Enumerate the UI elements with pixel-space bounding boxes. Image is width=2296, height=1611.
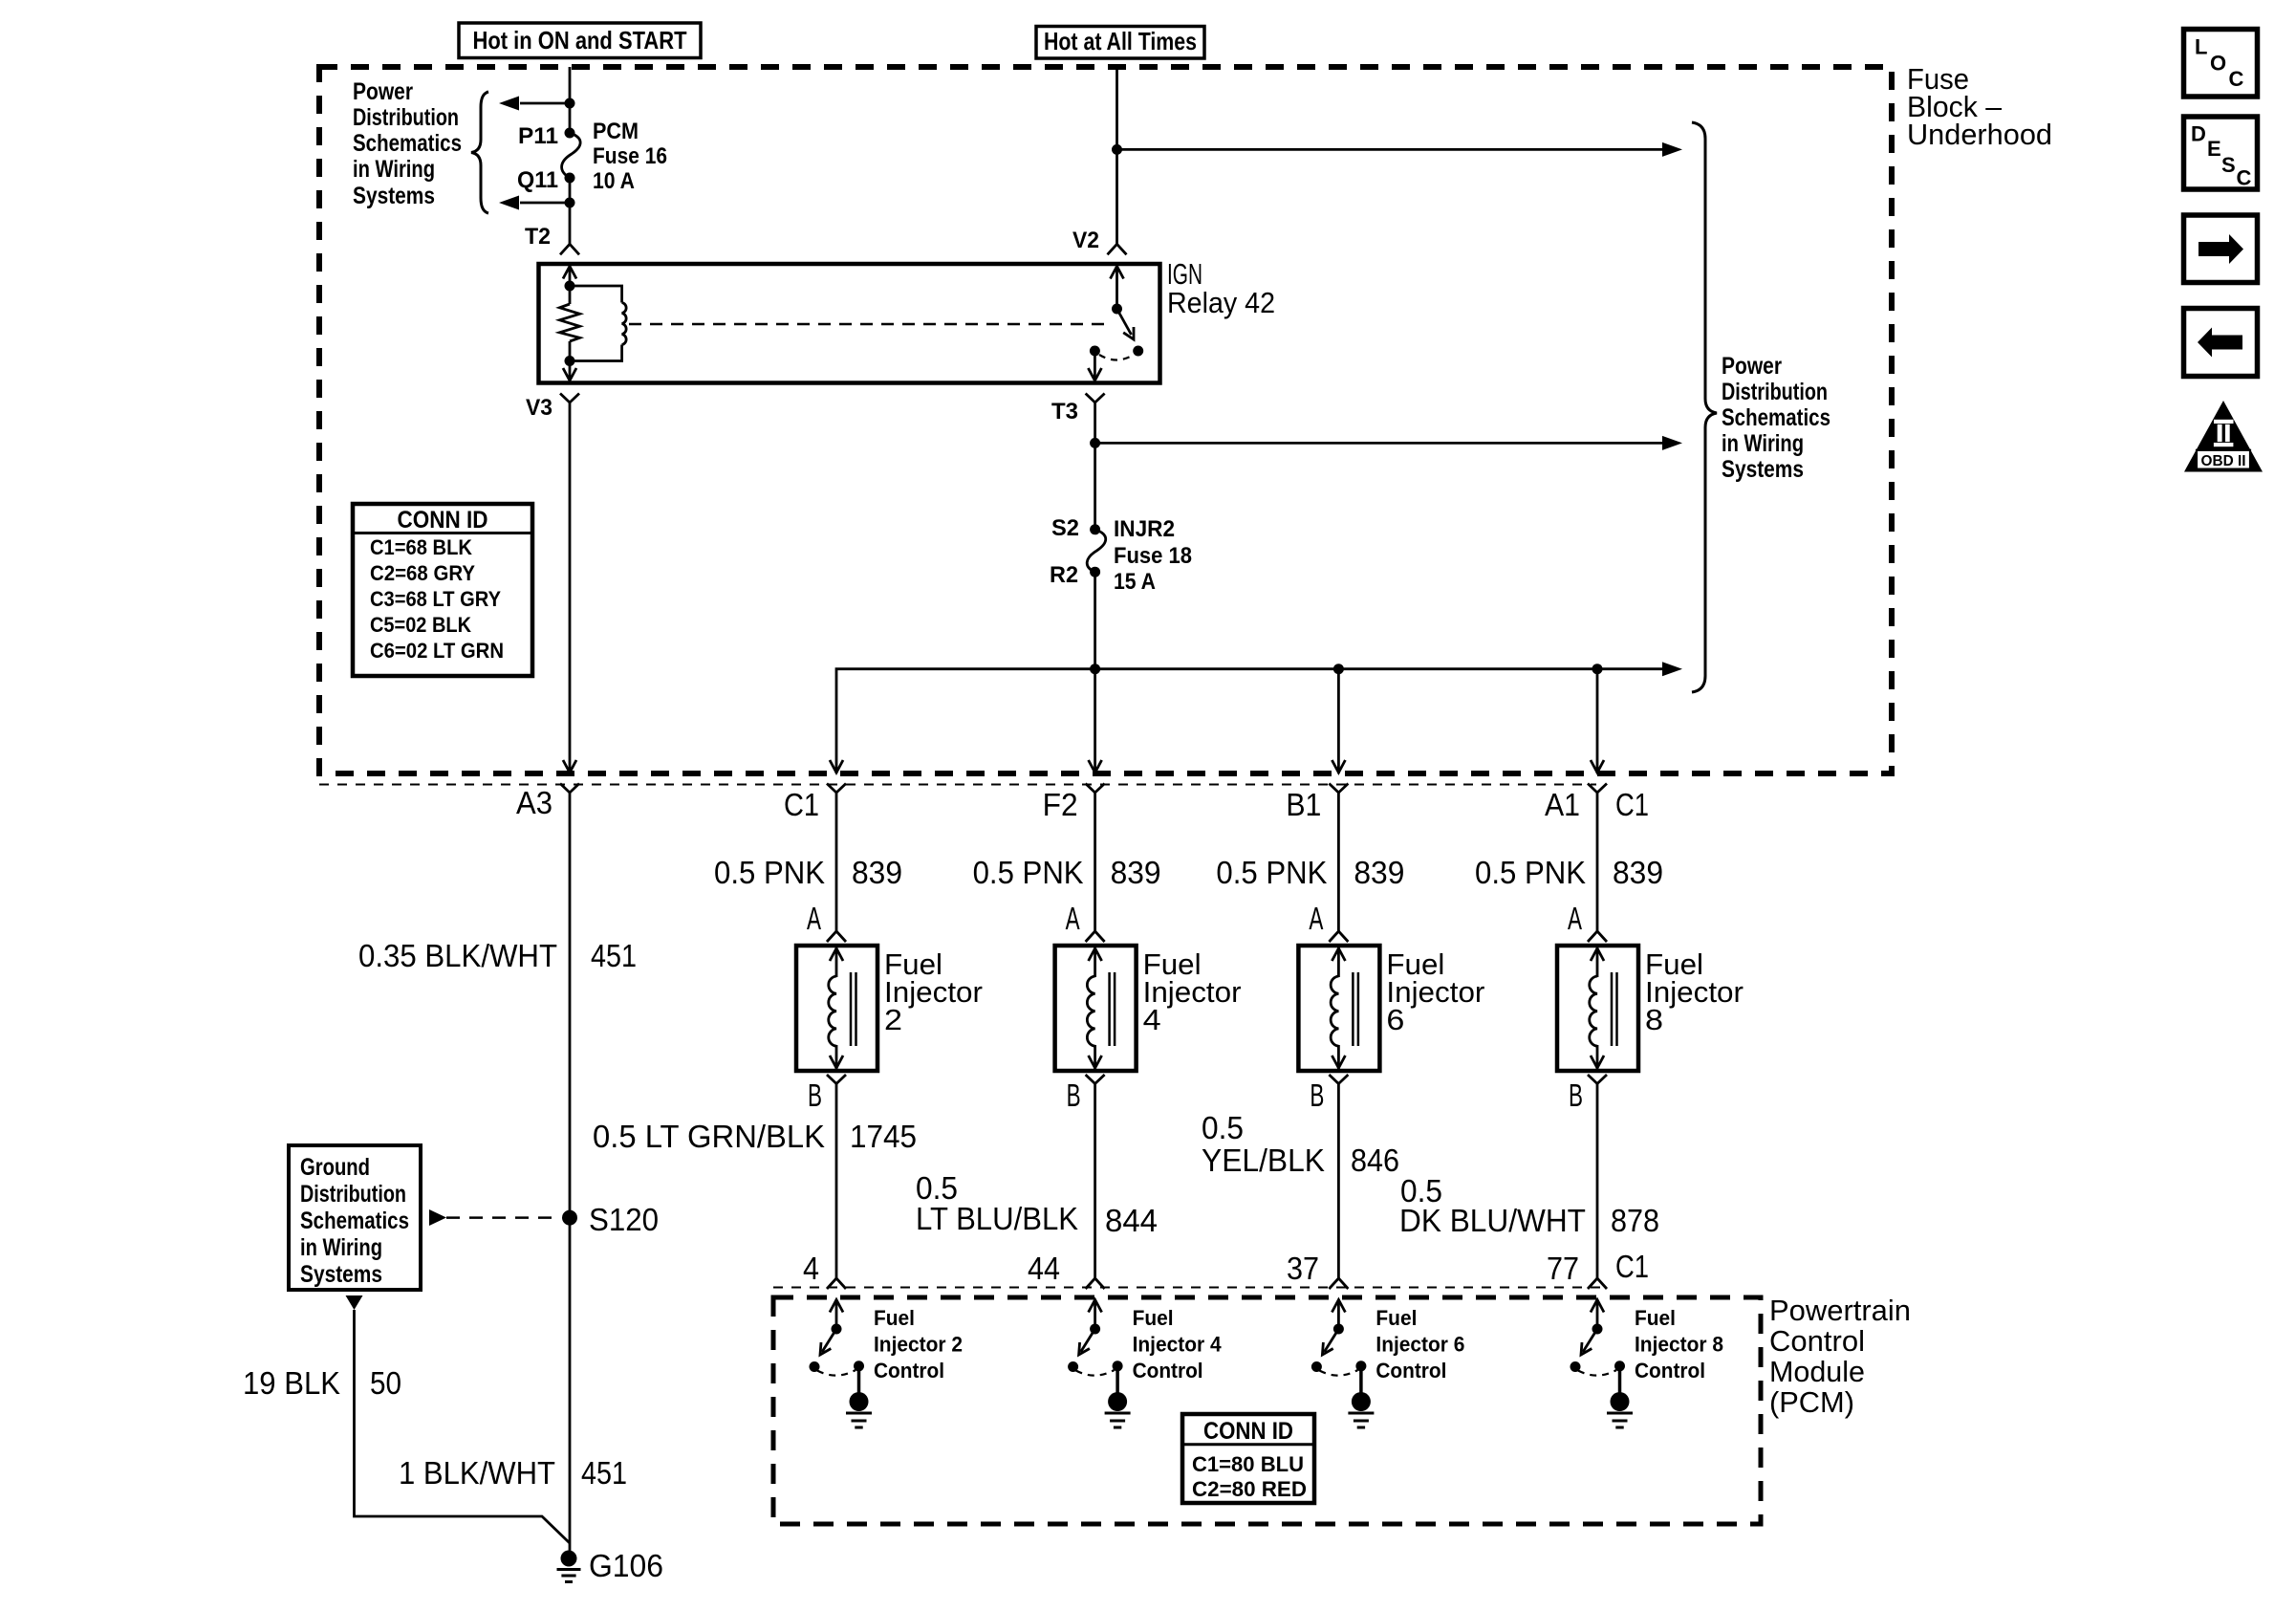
svg-text:Schematics: Schematics — [353, 130, 462, 157]
svg-text:4: 4 — [1143, 1003, 1161, 1036]
svg-text:0.5 PNK: 0.5 PNK — [973, 855, 1084, 890]
PCM switch dashed travel arc injector 2 — [817, 1370, 856, 1376]
svg-text:Module: Module — [1769, 1355, 1865, 1388]
fuel injector 4 box — [1055, 946, 1137, 1071]
wire from Hot in ON and START to fuse 16 — [569, 67, 572, 133]
svg-text:T2: T2 — [525, 224, 551, 250]
svg-text:0.5: 0.5 — [1202, 1110, 1244, 1145]
PCM internal ground lead injector 8 — [1618, 1366, 1622, 1396]
svg-text:DK BLU/WHT: DK BLU/WHT — [1399, 1203, 1586, 1238]
relay coil top junction — [565, 281, 575, 292]
svg-text:F2: F2 — [1043, 787, 1078, 822]
icon OBD II triangle — [2184, 401, 2263, 472]
PCM switch right contact node injector 8 — [1614, 1361, 1625, 1371]
connector V3 below relay — [560, 394, 579, 403]
PCM switch right contact node injector 6 — [1355, 1361, 1366, 1371]
dashed link to S120 — [446, 1216, 558, 1219]
svg-text:878: 878 — [1611, 1203, 1659, 1238]
svg-text:Underhood: Underhood — [1907, 118, 2052, 151]
svg-text:6: 6 — [1386, 1003, 1404, 1036]
PCM driver arrow for injector 2 — [835, 1299, 838, 1329]
wire 0.5 PNK 839 to fuel injector 6 — [1337, 793, 1340, 931]
PCM internal ground lead injector 4 — [1116, 1366, 1119, 1396]
svg-text:C1: C1 — [1615, 1249, 1649, 1284]
svg-text:B: B — [1067, 1078, 1081, 1113]
fuel injector 6 internal arrows — [1337, 947, 1340, 977]
relay internal dashed actuation line — [629, 323, 1105, 326]
svg-text:YEL/BLK: YEL/BLK — [1202, 1143, 1325, 1178]
tag box Hot in ON and START — [459, 23, 701, 58]
arrow from ground distribution box — [429, 1209, 446, 1226]
svg-text:2: 2 — [884, 1003, 902, 1036]
svg-text:in Wiring: in Wiring — [300, 1234, 382, 1261]
fuel injector 2 internal arrows — [835, 947, 838, 977]
PCM switch blade arrow injector 4 — [1081, 1329, 1095, 1352]
PCM switch blade arrow injector 2 — [822, 1329, 836, 1352]
svg-text:T3: T3 — [1051, 399, 1078, 425]
PCM switch right contact node injector 2 — [854, 1361, 864, 1371]
wire from fuel injector 8 pin B to PCM — [1596, 1084, 1599, 1279]
fuse F16 PCM Fuse 16 10 A — [565, 128, 575, 139]
fuel injector 8 core bars — [1611, 972, 1614, 1046]
svg-text:S: S — [2221, 153, 2236, 177]
wire fuse 16 to T2 — [565, 198, 575, 208]
PCM internal ground lead injector 6 — [1359, 1366, 1363, 1396]
connector pin A1 at fuse block output (injector 8 circuit) — [1588, 784, 1607, 794]
fuel injector 6 box — [1298, 946, 1379, 1071]
svg-text:1745: 1745 — [850, 1119, 917, 1154]
PCM switch left contact node injector 2 — [810, 1361, 820, 1372]
svg-text:A: A — [1066, 901, 1080, 936]
svg-text:C1=68 BLK: C1=68 BLK — [370, 535, 472, 559]
svg-text:B: B — [808, 1078, 822, 1113]
svg-text:C2=80 RED: C2=80 RED — [1192, 1477, 1307, 1501]
fuel injector 4 core bars — [1108, 972, 1111, 1046]
branch arrow to power distribution (upper) — [520, 102, 570, 105]
svg-text:Q11: Q11 — [517, 167, 558, 193]
svg-text:R2: R2 — [1050, 562, 1078, 588]
PCM switch left contact node injector 4 — [1068, 1361, 1078, 1372]
svg-text:B: B — [1569, 1078, 1583, 1113]
PCM switch pivot node injector 4 — [1090, 1324, 1100, 1335]
svg-text:C3=68 LT GRY: C3=68 LT GRY — [370, 587, 501, 611]
fuel injector 8 internal arrows — [1596, 947, 1599, 977]
svg-text:0.35 BLK/WHT: 0.35 BLK/WHT — [358, 938, 557, 973]
wire from fuel injector 6 pin B to PCM — [1337, 1084, 1340, 1279]
svg-text:Ground: Ground — [300, 1154, 370, 1181]
bus junction at B1 column — [1333, 664, 1344, 674]
svg-text:A3: A3 — [516, 785, 552, 820]
svg-text:15 A: 15 A — [1114, 569, 1156, 595]
fuel injector 4 internal arrows — [1094, 947, 1096, 977]
relay switch output node (T3 side) — [1090, 346, 1100, 357]
svg-text:V2: V2 — [1072, 228, 1099, 253]
svg-text:844: 844 — [1105, 1203, 1158, 1238]
svg-text:Control: Control — [1769, 1324, 1865, 1358]
PCM switch dashed travel arc injector 8 — [1578, 1370, 1616, 1376]
PCM switch left contact node injector 8 — [1570, 1361, 1581, 1372]
wire fuse 18 down to injector bus — [1094, 572, 1096, 773]
svg-text:Fuel: Fuel — [1375, 1306, 1417, 1330]
relay switch contact node (NO) — [1133, 346, 1143, 357]
PCM driver arrow for injector 4 — [1094, 1299, 1096, 1329]
PCM switch dashed travel arc injector 6 — [1319, 1370, 1357, 1376]
bus junction at F2 column — [1090, 664, 1100, 674]
fuel injector 8 solenoid coil — [1590, 976, 1597, 1046]
svg-text:Systems: Systems — [353, 183, 435, 209]
svg-text:(PCM): (PCM) — [1769, 1385, 1854, 1419]
fuel injector 6 solenoid coil — [1331, 976, 1338, 1046]
svg-text:C1: C1 — [1615, 787, 1649, 822]
svg-text:Systems: Systems — [1722, 456, 1804, 483]
relay coil pin arrow up (T2 side) — [569, 267, 572, 287]
svg-text:Schematics: Schematics — [1722, 404, 1830, 431]
arrow into 19 BLK 50 wire — [346, 1295, 363, 1310]
svg-text:in Wiring: in Wiring — [353, 156, 435, 183]
svg-text:A1: A1 — [1545, 787, 1580, 822]
connector line below fuse block — [319, 784, 1596, 786]
wire 0.5 PNK 839 to fuel injector 8 — [1596, 793, 1599, 931]
svg-text:E: E — [2207, 137, 2221, 161]
bus drop wire to A1 — [1596, 669, 1599, 773]
connector T2 wire end — [560, 244, 579, 254]
junction node on P11 branch — [565, 98, 575, 109]
svg-text:50: 50 — [370, 1365, 401, 1401]
svg-text:in Wiring: in Wiring — [1722, 430, 1804, 457]
svg-text:Fuel: Fuel — [1133, 1306, 1174, 1330]
wire 19 BLK 50 from ground distribution — [355, 1310, 571, 1543]
connector at fuel injector 8 pin A — [1588, 931, 1607, 942]
svg-text:G106: G106 — [589, 1548, 663, 1583]
wire from fuel injector 2 pin B to PCM — [835, 1084, 838, 1279]
svg-text:A: A — [1309, 901, 1323, 936]
svg-text:37: 37 — [1287, 1251, 1319, 1286]
svg-text:S2: S2 — [1051, 515, 1079, 541]
svg-text:19 BLK: 19 BLK — [243, 1365, 340, 1401]
PCM internal ground symbol injector 4 — [1108, 1392, 1127, 1411]
CONN ID table (fuse block) — [353, 504, 532, 676]
bus drop wire to B1 — [1337, 669, 1340, 773]
wire A3 down to S120 and G106 — [569, 793, 572, 1551]
svg-text:Injector 4: Injector 4 — [1133, 1333, 1223, 1357]
PCM internal ground symbol injector 6 — [1352, 1392, 1371, 1411]
svg-text:S120: S120 — [589, 1202, 659, 1237]
PCM switch blade arrow injector 8 — [1583, 1329, 1597, 1352]
svg-text:Schematics: Schematics — [300, 1208, 409, 1234]
connector at fuel injector 6 pin B — [1329, 1075, 1348, 1084]
svg-text:1 BLK/WHT: 1 BLK/WHT — [399, 1455, 555, 1491]
svg-text:A: A — [807, 901, 821, 936]
connector pin C1 at fuse block output (injector 2 circuit) — [827, 784, 846, 794]
connector at fuel injector 4 pin A — [1086, 931, 1105, 942]
svg-text:C: C — [2229, 67, 2244, 91]
svg-text:Distribution: Distribution — [300, 1181, 406, 1208]
svg-text:V3: V3 — [526, 395, 552, 421]
svg-text:C6=02 LT GRN: C6=02 LT GRN — [370, 639, 504, 663]
connector at fuel injector 8 pin B — [1588, 1075, 1607, 1084]
svg-text:C5=02 BLK: C5=02 BLK — [370, 613, 471, 637]
svg-text:Relay 42: Relay 42 — [1167, 286, 1275, 319]
PCM internal ground symbol injector 8 — [1611, 1392, 1630, 1411]
junction node V2 feed — [1112, 144, 1122, 155]
svg-text:Power: Power — [1722, 353, 1782, 380]
relay resistor (parallel with coil) — [569, 286, 572, 304]
icon box LOC — [2184, 30, 2258, 98]
svg-text:CONN ID: CONN ID — [398, 507, 488, 533]
wire V3 down to fuse block edge — [569, 403, 572, 773]
PCM dashed border — [773, 1297, 1761, 1524]
icon box arrow left — [2184, 309, 2258, 377]
svg-text:A: A — [1568, 901, 1582, 936]
svg-text:839: 839 — [852, 855, 902, 890]
PCM switch blade arrow injector 6 — [1324, 1329, 1338, 1352]
PCM switch pivot node injector 6 — [1333, 1324, 1344, 1335]
fuse F18 INJR2 Fuse 18 15 A — [1090, 524, 1100, 534]
fuel injector 6 core bars — [1352, 972, 1354, 1046]
fuel injector 2 box — [796, 946, 877, 1071]
svg-text:C: C — [2237, 166, 2252, 190]
relay coil bottom junction — [565, 356, 575, 366]
svg-text:Control: Control — [1635, 1359, 1705, 1382]
svg-text:Hot in ON and START: Hot in ON and START — [473, 26, 687, 54]
CONN ID table (PCM) — [1182, 1414, 1314, 1503]
svg-text:C1: C1 — [784, 787, 819, 822]
svg-text:C2=68 GRY: C2=68 GRY — [370, 561, 475, 585]
svg-text:846: 846 — [1351, 1143, 1399, 1178]
Ground Distribution Schematics box — [289, 1145, 421, 1290]
svg-text:Control: Control — [1133, 1359, 1203, 1382]
svg-text:Fuel: Fuel — [1635, 1306, 1676, 1330]
fuel injector 2 solenoid coil — [829, 976, 836, 1046]
feed arrow to power distribution (middle right) — [1095, 442, 1662, 445]
tag box Hot at All Times — [1036, 27, 1204, 59]
svg-text:0.5 PNK: 0.5 PNK — [1216, 855, 1327, 890]
PCM driver arrow for injector 6 — [1337, 1299, 1340, 1329]
svg-text:Injector 8: Injector 8 — [1635, 1333, 1723, 1357]
connector at fuel injector 6 pin A — [1329, 931, 1348, 942]
svg-text:PCM: PCM — [593, 119, 639, 144]
icon box arrow right — [2184, 215, 2258, 283]
svg-text:Power: Power — [353, 78, 413, 105]
relay K42 IGN Relay 42 box — [539, 264, 1160, 383]
relay switch dashed travel arc — [1099, 355, 1134, 360]
wire from Hot at All Times to relay V2 — [1116, 67, 1118, 244]
svg-text:0.5 PNK: 0.5 PNK — [1475, 855, 1586, 890]
branch arrow to power distribution (lower) — [520, 202, 570, 205]
feed arrow to power distribution (top right) — [1117, 148, 1663, 151]
PCM driver arrow for injector 8 — [1596, 1299, 1599, 1329]
bus drop arrow at C1 — [830, 760, 843, 773]
svg-text:839: 839 — [1111, 855, 1161, 890]
svg-text:Hot at All Times: Hot at All Times — [1044, 27, 1197, 55]
ground G106 symbol — [561, 1551, 577, 1567]
svg-text:Fuse 16: Fuse 16 — [593, 143, 667, 169]
svg-text:Fuse 18: Fuse 18 — [1114, 543, 1192, 569]
splice node S120 — [562, 1210, 577, 1226]
fuel injector 8 box — [1557, 946, 1638, 1071]
svg-text:B1: B1 — [1286, 787, 1321, 822]
relay switch common pin arrow up (V2 side) — [1116, 267, 1118, 310]
svg-text:0.5 PNK: 0.5 PNK — [714, 855, 825, 890]
connector pin F2 at fuse block output (injector 4 circuit) — [1086, 784, 1105, 794]
svg-text:L: L — [2195, 35, 2207, 59]
svg-text:Control: Control — [1375, 1359, 1446, 1382]
svg-text:B: B — [1310, 1078, 1324, 1113]
svg-text:C1=80 BLU: C1=80 BLU — [1192, 1452, 1304, 1476]
connector line above PCM — [773, 1287, 1606, 1289]
svg-text:CONN ID: CONN ID — [1203, 1418, 1293, 1445]
svg-text:Systems: Systems — [300, 1261, 382, 1288]
relay coil winding — [570, 286, 622, 303]
right brace grouping power feeds — [1692, 122, 1717, 692]
svg-text:77: 77 — [1547, 1251, 1579, 1286]
svg-text:Distribution: Distribution — [1722, 379, 1828, 405]
svg-text:10 A: 10 A — [593, 168, 635, 194]
svg-text:Injector 6: Injector 6 — [1375, 1333, 1464, 1357]
wire 0.5 PNK 839 to fuel injector 2 — [835, 793, 838, 931]
svg-text:Control: Control — [874, 1359, 944, 1382]
svg-text:4: 4 — [803, 1251, 819, 1286]
PCM switch right contact node injector 4 — [1113, 1361, 1123, 1371]
svg-text:INJR2: INJR2 — [1114, 516, 1175, 542]
svg-text:839: 839 — [1613, 855, 1663, 890]
connector at fuel injector 2 pin B — [827, 1075, 846, 1084]
svg-text:P11: P11 — [518, 123, 558, 149]
svg-text:LT BLU/BLK: LT BLU/BLK — [916, 1201, 1078, 1236]
svg-text:8: 8 — [1645, 1003, 1663, 1036]
relay coil pin arrow down (V3 side) — [569, 361, 572, 381]
injector supply bus wire — [836, 669, 1662, 773]
wire from fuel injector 4 pin B to PCM — [1094, 1084, 1096, 1279]
svg-text:Injector 2: Injector 2 — [874, 1333, 963, 1357]
relay switch output arrow down to T3 — [1094, 351, 1096, 381]
svg-text:451: 451 — [591, 938, 637, 973]
wire 0.5 PNK 839 to fuel injector 4 — [1094, 793, 1096, 931]
PCM internal ground symbol injector 2 — [850, 1392, 869, 1411]
connector at fuel injector 2 pin A — [827, 931, 846, 942]
PCM internal ground lead injector 2 — [857, 1366, 861, 1396]
connector pin B1 at fuse block output (injector 6 circuit) — [1329, 784, 1348, 794]
relay switch pivot node — [1112, 304, 1122, 315]
relay switch blade arrow — [1117, 309, 1132, 335]
svg-text:D: D — [2191, 122, 2206, 146]
PCM switch pivot node injector 2 — [832, 1324, 842, 1335]
svg-text:839: 839 — [1354, 855, 1404, 890]
PCM switch pivot node injector 8 — [1592, 1324, 1603, 1335]
wire T3 down through fuse 18 — [1094, 403, 1096, 530]
junction node T3 feed — [1090, 438, 1100, 448]
PCM switch dashed travel arc injector 4 — [1076, 1370, 1115, 1376]
PCM switch left contact node injector 6 — [1311, 1361, 1322, 1372]
connector at fuel injector 4 pin B — [1086, 1075, 1105, 1084]
svg-text:Distribution: Distribution — [353, 104, 459, 131]
connector V2 wire end — [1108, 244, 1127, 254]
svg-text:44: 44 — [1028, 1251, 1060, 1286]
fuel injector 2 core bars — [850, 972, 853, 1046]
fuse block underhood dashed border — [319, 67, 1892, 773]
left brace grouping P11/Q11 branches — [471, 92, 488, 213]
connector A3 at PCM harness — [560, 784, 579, 794]
icon box DESC — [2184, 117, 2258, 189]
svg-text:451: 451 — [581, 1455, 627, 1491]
fuel injector 4 solenoid coil — [1087, 976, 1094, 1046]
bus junction at A1 column — [1592, 664, 1603, 674]
connector T3 below relay — [1086, 394, 1105, 403]
svg-text:O: O — [2210, 52, 2226, 76]
svg-text:Fuel: Fuel — [874, 1306, 915, 1330]
svg-text:OBD II: OBD II — [2201, 453, 2246, 469]
svg-text:Powertrain: Powertrain — [1769, 1294, 1911, 1327]
svg-text:0.5 LT GRN/BLK: 0.5 LT GRN/BLK — [593, 1119, 825, 1154]
